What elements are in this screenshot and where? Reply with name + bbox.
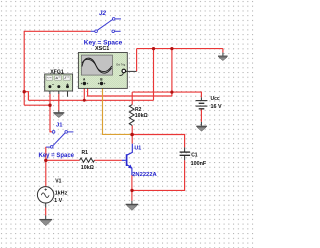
wire: R1 row left segment [46,159,80,161]
svg-text:10kΩ: 10kΩ [81,165,95,171]
wire net: J2 feed horizontal y=31.3 [24,30,90,32]
lead: ext trig lower tail [119,73,123,76]
ground emitter [126,204,139,210]
wire: V1 bottom red segment [45,208,47,216]
wire: jog from junction (24,91.7) to horizontal C [24,92,28,101]
lead: ext trig stub dark [126,70,137,72]
svg-text:10kΩ: 10kΩ [135,113,148,119]
svg-text:R2: R2 [135,107,142,113]
svg-text:1kHz: 1kHz [55,191,68,197]
svg-text:R1: R1 [82,150,89,156]
oscilloscope XSC1 box [78,53,136,89]
wire: supply row A y=92.1 to battery [132,92,201,97]
wire: emitter vertical red [131,175,133,201]
junction dots [23,90,26,93]
function generator XFG1 box [45,74,73,91]
wire: R2 feed vertical [131,92,133,105]
svg-text:100nF: 100nF [191,161,207,167]
source V1 circle [37,187,53,203]
wire: scope A right drop and horizontal B y=96 [88,85,172,96]
lead: V1 top/bottom dark [45,203,47,219]
ground V1 [39,220,52,226]
svg-text:J1: J1 [56,123,63,129]
svg-text:V1: V1 [55,178,61,184]
lead: XFG1 terminal stubs [50,88,68,97]
svg-text:U1: U1 [134,146,141,152]
svg-text:Ucc: Ucc [211,96,220,102]
svg-text:XFG1: XFG1 [50,69,64,75]
lead: battery top/bottom [200,97,202,125]
wire: horizontal C y=100.3 to V2 [28,99,153,101]
battery Ucc plates [196,100,208,102]
svg-text:Ext Trig: Ext Trig [116,63,125,67]
ground top-right [218,56,228,60]
lead: top-right ground dark stub [222,53,224,56]
lead: XFG1 ground stub [58,110,60,112]
svg-text:C1: C1 [191,153,198,159]
wire: C1 bottom to emitter row [132,160,185,190]
wire: R1 to transistor base [94,159,121,161]
wire: V2 vertical x=153.5 [153,49,155,101]
ground XFG1 [53,113,64,118]
lead: C1 top and bottom [184,147,186,160]
wire: left vertical x=24.2 from J2 row down [23,31,25,105]
resistor R2 zigzag [129,105,134,126]
wire: XFG1 middle terminal red stub [58,94,60,110]
wire: J1 feed vertical x=50 [50,105,52,132]
wire: scope A left drop x=84.3 [83,85,85,100]
transistor U1 [122,144,133,176]
circuit schematic canvas [0,0,254,248]
wire: scope channel B orange [103,85,131,134]
ground battery [196,126,207,131]
wire: node row y=134.5 to C1 column [132,135,185,148]
wire: battery bottom red [200,109,202,122]
switch J1 [46,131,73,149]
wire: top horizontal y=48.6 [137,48,223,50]
svg-text:2N2222A: 2N2222A [132,172,157,178]
lead: emitter ground dark [131,201,133,205]
wire: horizontal y=105.2 from x24 to XFG1 left stub [24,104,50,106]
svg-text:Key = Space: Key = Space [39,153,75,159]
wire: top-right ground stub [222,49,224,53]
switch J2 [91,18,122,33]
svg-text:XSC1: XSC1 [95,46,109,52]
wire: R2 bottom to collector node [131,125,133,143]
capacitor C1 plates [180,151,191,153]
wire: ext-trig vertical x=136.6 [136,49,138,72]
wire: V3 vertical x=171.9 [171,49,173,96]
wire: V1 column x=45.8 from J1 pole to V1 top [45,147,47,187]
resistor R1 zigzag [80,158,95,162]
svg-text:J2: J2 [99,10,106,17]
wire: XFG1 left terminal red stub [49,94,51,105]
svg-text:1 V: 1 V [54,198,62,204]
svg-text:16 V: 16 V [211,104,222,110]
